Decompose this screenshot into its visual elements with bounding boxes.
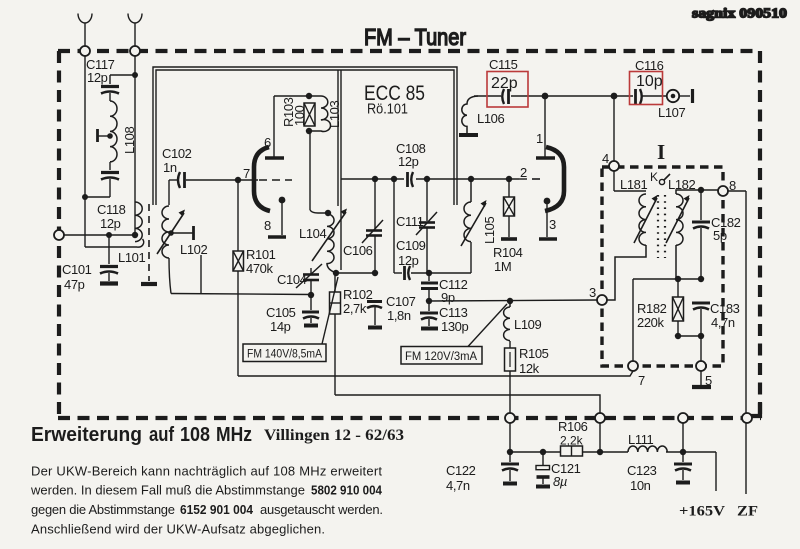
bus node dots	[372, 176, 512, 182]
svg-text:Rö.101: Rö.101	[367, 102, 408, 118]
svg-text:C118: C118	[97, 202, 126, 217]
svg-text:L182: L182	[668, 177, 695, 192]
label C122 4,7n	[446, 463, 476, 493]
svg-text:C104: C104	[277, 272, 307, 287]
label C109 12p	[396, 238, 426, 268]
svg-text:L101: L101	[118, 250, 145, 265]
callout box FM 120V/3mA	[401, 304, 507, 364]
paragraph line 4	[31, 522, 325, 537]
trimmer C104	[296, 264, 322, 295]
svg-text:R102: R102	[343, 287, 373, 302]
node dots supply bus	[507, 449, 686, 455]
label R182 220k	[637, 301, 667, 330]
ground return line1 y=376	[238, 371, 633, 376]
svg-text:C113: C113	[439, 305, 468, 320]
svg-text:6152 901 004: 6152 901 004	[180, 502, 254, 517]
capacitor C116	[636, 89, 667, 104]
svg-text:K: K	[650, 170, 658, 184]
svg-text:8µ: 8µ	[553, 474, 567, 489]
title FM-Tuner	[364, 24, 466, 50]
svg-text:1M: 1M	[494, 259, 511, 274]
svg-text:L107: L107	[658, 105, 685, 120]
resistor R101 470k	[233, 180, 244, 376]
node A (85,197)	[82, 194, 88, 200]
inductor L103	[309, 96, 331, 132]
label 7	[638, 373, 645, 388]
label C108 12p	[396, 141, 426, 169]
svg-text:12p: 12p	[87, 70, 108, 85]
arrow L181	[634, 195, 658, 243]
wire to L105 bottom	[429, 242, 471, 273]
svg-text:+165V: +165V	[679, 504, 726, 520]
svg-text:L181: L181	[620, 177, 647, 192]
label C121 8µ	[551, 461, 581, 489]
capacitor C109	[405, 266, 430, 280]
arrow L104	[312, 209, 347, 262]
heading Villingen 12 - 62/63	[264, 427, 404, 444]
socket L107	[667, 89, 693, 103]
node (429,301)	[426, 298, 432, 304]
label R104 1M	[493, 245, 523, 274]
label L181	[620, 177, 647, 192]
label +165V ZF	[679, 504, 758, 520]
wire row y=279	[633, 279, 701, 361]
label L102	[180, 242, 207, 257]
node (311,295)	[308, 292, 314, 298]
label L108 (rotated)	[122, 127, 137, 154]
terminal circle 8	[718, 186, 746, 196]
triode V2 anode bar + pin1 wire	[536, 96, 555, 158]
svg-text:R105: R105	[519, 346, 549, 361]
label 5	[705, 373, 712, 388]
output wire y=301	[429, 300, 597, 301]
capacitor C118	[101, 162, 119, 197]
arrow L102	[157, 210, 185, 255]
label I	[657, 140, 665, 164]
antenna A1	[78, 14, 92, 48]
capacitor C117	[101, 75, 135, 101]
wire C118 to left antenna	[85, 196, 110, 198]
border corner bottom-right	[748, 403, 760, 416]
labels R103 100 L103 (rotated)	[281, 97, 342, 128]
node L101 top	[132, 232, 138, 238]
inductor L104 (variable)	[327, 214, 336, 273]
label C113 130p	[439, 305, 468, 334]
wire L102 bottom return	[169, 258, 311, 295]
svg-text:47p: 47p	[64, 277, 85, 292]
label 4	[602, 151, 609, 166]
svg-text:Villingen 12 - 62/63: Villingen 12 - 62/63	[264, 427, 404, 444]
svg-text:3: 3	[589, 285, 596, 300]
paragraph line 3	[31, 502, 383, 517]
core dotted lines	[658, 195, 665, 258]
svg-text:FM 120V/3mA: FM 120V/3mA	[405, 349, 478, 363]
heading Erweiterung auf 108 MHz	[31, 424, 252, 446]
tube shield divider	[338, 70, 341, 270]
svg-text:L111: L111	[628, 432, 654, 447]
svg-text:470k: 470k	[246, 261, 273, 276]
label Rö.101	[367, 102, 408, 118]
svg-text:2: 2	[520, 165, 527, 180]
core adjust K	[659, 174, 670, 185]
triode V2 grid dashes	[519, 178, 545, 180]
svg-text:4: 4	[602, 151, 609, 166]
antenna terminal circles on border	[80, 46, 140, 56]
svg-text:Erweiterung: Erweiterung	[31, 424, 142, 446]
trimmer C106	[362, 179, 383, 273]
R102 resistor 2,7k	[330, 273, 341, 395]
inductor L101	[135, 202, 142, 242]
svg-text:R104: R104	[493, 245, 523, 260]
svg-text:1n: 1n	[163, 160, 177, 175]
capacitor C115	[502, 89, 508, 104]
node (545,96)	[542, 93, 549, 100]
resistor R103 100	[304, 103, 315, 126]
wire pin4 drop	[613, 96, 615, 161]
svg-text:130p: 130p	[441, 319, 468, 334]
svg-text:8: 8	[264, 218, 271, 233]
label C102 1n	[162, 146, 192, 175]
svg-text:5: 5	[705, 373, 712, 388]
svg-text:L105: L105	[482, 217, 497, 244]
supply bus y=452	[510, 452, 716, 491]
svg-text:1,8n: 1,8n	[387, 308, 411, 323]
svg-text:5p: 5p	[713, 228, 727, 243]
svg-text:auf: auf	[149, 424, 174, 446]
node R103 top	[306, 93, 312, 99]
svg-text:12p: 12p	[398, 154, 419, 169]
label C107 1,8n	[386, 294, 416, 323]
label R105 12k	[519, 346, 549, 376]
svg-text:FM 140V/8,5mA: FM 140V/8,5mA	[247, 347, 323, 361]
shield dashed between L101/L102	[141, 204, 157, 284]
svg-text:108: 108	[180, 424, 210, 446]
svg-text:R106: R106	[558, 419, 588, 434]
trimmer C111	[416, 179, 437, 272]
svg-text:C122: C122	[446, 463, 476, 478]
resistor R182 220k	[673, 279, 702, 336]
triode V1 cathode	[268, 197, 286, 237]
terminal circle 4	[609, 161, 619, 191]
label L101	[118, 250, 145, 265]
tap of L108	[98, 129, 113, 142]
svg-text:C106: C106	[343, 243, 373, 258]
svg-text:6: 6	[264, 135, 271, 150]
label L182	[668, 177, 695, 192]
node grid 1 (238,180)	[235, 177, 241, 183]
triode V1 grid dashes	[259, 179, 292, 181]
arrow L182	[666, 195, 690, 243]
svg-text:C115: C115	[489, 57, 518, 72]
svg-text:L104: L104	[299, 226, 326, 241]
wire C109 branch	[394, 179, 402, 273]
inductor L105 (variable)	[464, 179, 471, 242]
label C123 10n	[627, 463, 657, 493]
label C112 9p	[439, 277, 468, 305]
svg-text:Anschließend wird der UKW-Aufs: Anschließend wird der UKW-Aufsatz abgegl…	[31, 522, 325, 537]
svg-text:7: 7	[638, 373, 645, 388]
resistor R106 2,2k	[561, 446, 583, 456]
label C118 12p	[97, 202, 126, 231]
outer dashed border	[58, 51, 761, 418]
resistor R104 1M	[501, 179, 517, 239]
capacitor C121 electrolytic	[536, 452, 550, 487]
grid bus y=179	[341, 178, 519, 180]
capacitor C108 on bus	[408, 172, 414, 187]
triode V2 cathode	[539, 198, 557, 239]
wire antenna left drop	[85, 55, 144, 247]
svg-text:100: 100	[292, 105, 307, 126]
capacitor C102	[169, 172, 238, 205]
label R102 2,7k	[343, 287, 373, 316]
red box C116	[630, 72, 663, 105]
border terminal circles bottom	[505, 413, 752, 423]
terminal circle left border	[54, 230, 64, 240]
triode V1 grid wire	[238, 179, 258, 181]
svg-text:10n: 10n	[630, 478, 651, 493]
node top C117 junction	[132, 72, 138, 78]
resistor R105 12k	[505, 341, 516, 452]
label FM 140V/8,5mA	[247, 347, 323, 361]
label C106	[343, 243, 373, 258]
label L107	[658, 105, 685, 120]
svg-text:C123: C123	[627, 463, 657, 478]
return line2 y=395	[335, 395, 600, 452]
ground bar C101	[100, 281, 118, 285]
node (678,336) (701,336)	[675, 333, 704, 339]
svg-text:10p: 10p	[636, 73, 663, 90]
bandfilter I dashed box	[602, 167, 723, 366]
svg-text:ZF: ZF	[737, 504, 758, 520]
label R106 2,2k	[558, 419, 588, 448]
label C116 10p	[635, 58, 664, 90]
svg-text:L109: L109	[514, 317, 541, 332]
wire node row y=273	[336, 272, 375, 274]
label C183 4,7n	[710, 301, 740, 330]
label L104	[299, 226, 326, 241]
svg-text:I: I	[657, 140, 665, 164]
inductor L109	[504, 301, 510, 341]
svg-text:L108: L108	[122, 127, 137, 154]
label L111	[628, 432, 654, 447]
pin labels 6 7 8	[243, 135, 271, 233]
red box C115	[487, 72, 528, 108]
inductor L108	[110, 101, 117, 162]
svg-text:2,7k: 2,7k	[343, 301, 367, 316]
capacitor C182	[692, 190, 710, 279]
triode V2 envelope arc	[545, 147, 564, 211]
tap of L102	[168, 226, 201, 294]
svg-text:12p: 12p	[398, 253, 419, 268]
node (374,273)	[372, 270, 378, 276]
svg-text:R182: R182	[637, 301, 667, 316]
capacitor C123	[674, 452, 692, 483]
antenna A2	[128, 14, 142, 48]
svg-text:22p: 22p	[491, 75, 518, 92]
svg-text:12k: 12k	[519, 361, 540, 376]
svg-text:gegen die Abstimmstange: gegen die Abstimmstange	[31, 502, 175, 517]
svg-text:4,7n: 4,7n	[711, 315, 735, 330]
label C111	[396, 214, 424, 229]
capacitor C112	[421, 273, 438, 301]
terminal circle 7	[628, 361, 638, 371]
svg-text:9p: 9p	[441, 290, 455, 305]
terminal circle 5	[692, 361, 711, 387]
plate wire y=96 with L106	[474, 95, 633, 97]
inductor L102 (variable)	[162, 206, 169, 258]
terminal circle 3	[597, 295, 607, 305]
label C182 5p	[711, 215, 741, 243]
tube enclosure box (open bottom, double line)	[153, 67, 457, 205]
label L105 (rotated)	[482, 217, 497, 244]
svg-text:5802 910 004: 5802 910 004	[311, 483, 383, 498]
label L106	[477, 111, 504, 126]
svg-text:14p: 14p	[270, 319, 291, 334]
label ECC 85	[364, 82, 425, 105]
svg-text:L103: L103	[327, 101, 342, 128]
svg-text:R101: R101	[246, 247, 276, 262]
svg-text:C116: C116	[635, 58, 664, 73]
node (701,190)	[698, 187, 704, 193]
wire circle683 down	[682, 423, 684, 452]
svg-text:C102: C102	[162, 146, 192, 161]
svg-text:L106: L106	[477, 111, 504, 126]
svg-text:MHz: MHz	[216, 424, 252, 446]
svg-text:L102: L102	[180, 242, 207, 257]
triode V1: pin6 wire	[274, 96, 309, 157]
label L109	[514, 317, 541, 332]
watermark sagnix 090510	[692, 6, 787, 21]
capacitor C105	[302, 295, 319, 326]
node (429,273)	[426, 270, 432, 276]
node (336,273)	[333, 270, 339, 276]
svg-text:2,2k: 2,2k	[560, 434, 584, 448]
arrow L105	[461, 200, 487, 246]
svg-text:4,7n: 4,7n	[446, 478, 470, 493]
svg-text:C109: C109	[396, 238, 426, 253]
wire input bus y=235	[63, 234, 135, 236]
node (614,96)	[611, 93, 618, 100]
label C101 47p	[62, 262, 92, 292]
svg-text:220k: 220k	[637, 315, 664, 330]
triode V1 anode bar	[265, 156, 284, 159]
svg-text:Der UKW-Bereich kann nachträgl: Der UKW-Bereich kann nachträglich auf 10…	[31, 464, 382, 479]
svg-text:C183: C183	[710, 301, 740, 316]
inductor L111	[628, 446, 667, 452]
svg-text:8: 8	[729, 178, 736, 193]
ZF output line	[745, 191, 747, 494]
pin labels 1 2 3	[520, 131, 556, 232]
capacitor C113	[420, 301, 438, 329]
capacitor C101	[100, 235, 118, 281]
svg-text:FM – Tuner: FM – Tuner	[364, 24, 466, 50]
svg-text:3: 3	[549, 217, 556, 232]
label C105 14p	[266, 305, 296, 334]
node L104 top	[325, 210, 331, 216]
label K	[650, 170, 658, 184]
node (678,279) and (701,279)	[675, 276, 704, 282]
capacitor C122	[501, 452, 519, 484]
capacitor C183	[692, 303, 710, 361]
label R101 470k	[246, 247, 276, 276]
inductor L181 (variable)	[606, 191, 646, 300]
callout box FM 140V/8,5mA	[243, 277, 338, 362]
svg-text:C107: C107	[386, 294, 416, 309]
paragraph line 2	[30, 483, 383, 498]
svg-text:C105: C105	[266, 305, 296, 320]
paragraph line 1	[31, 464, 382, 479]
node C101 top	[106, 232, 112, 238]
label FM 120V/3mA	[405, 349, 478, 363]
svg-text:1: 1	[536, 131, 543, 146]
label C117 12p	[86, 57, 115, 85]
label C104	[277, 272, 307, 287]
wire antenna right drop	[134, 55, 136, 235]
svg-text:12p: 12p	[100, 216, 121, 231]
svg-text:C101: C101	[62, 262, 92, 277]
svg-text:sagnix 090510: sagnix 090510	[692, 6, 787, 21]
node R103 bottom	[306, 128, 312, 134]
label C115 22p	[489, 57, 518, 92]
triode V1 envelope arc	[254, 147, 270, 211]
label 3	[589, 285, 596, 300]
node (510,301)	[507, 298, 513, 304]
label 8	[729, 178, 736, 193]
svg-text:werden. In diesem Fall muß die: werden. In diesem Fall muß die Abstimmst…	[30, 483, 305, 498]
capacitor C107	[367, 302, 382, 328]
svg-text:ausgetauscht werden.: ausgetauscht werden.	[260, 502, 383, 517]
inductor L106	[459, 96, 478, 135]
wire R103 bottom to L104	[310, 131, 328, 213]
svg-text:7: 7	[243, 166, 250, 181]
inductor L182 (variable)	[676, 190, 718, 279]
